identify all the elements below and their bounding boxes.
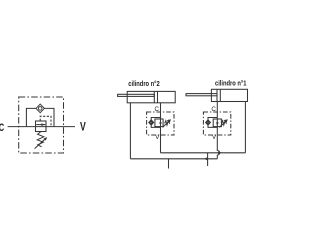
- wire V1 down with hop over series line: [217, 135, 219, 159]
- node V label: [80, 120, 86, 134]
- wire stub to control valve B: [207, 153, 209, 166]
- spring (valve 2): [165, 121, 170, 126]
- cylinder n°1 label: [215, 80, 247, 88]
- wire rod-side port of C2 down to rail: [129, 103, 131, 159]
- flow arrow (valve 1): [216, 122, 219, 125]
- wire bypass loop left: [26, 108, 36, 126]
- cylinder C1 piston: [216, 89, 218, 101]
- relief square (valve 2): [155, 119, 163, 127]
- wire through valve V2: [160, 119, 162, 153]
- cylinder n°2 label: [128, 80, 160, 88]
- spring (valve 1): [221, 121, 226, 126]
- flow arrow (valve 2): [159, 122, 162, 125]
- port C label (valve 1): [211, 106, 216, 113]
- node C label: [0, 122, 4, 134]
- check bypass loop (valve 2): [151, 118, 160, 128]
- relief valve body square: [36, 121, 47, 132]
- cylinder C1 rod: [186, 94, 217, 96]
- spring (zigzag): [37, 132, 44, 147]
- wire rod-side port of C1 to valve V1: [216, 102, 218, 120]
- check valve (diamond with ball): [36, 104, 44, 113]
- spring arrow (valve 2): [163, 119, 171, 127]
- wire cap-side port of C2 to valve V2: [160, 103, 162, 119]
- wire stub to control valve A: [168, 159, 170, 169]
- check valve (valve 2): [149, 120, 154, 125]
- valve V2 enclosure dash-dot box: [147, 112, 174, 135]
- flow arrow inside square: [36, 123, 45, 126]
- svg-text:V: V: [212, 134, 217, 141]
- pilot line (dashed): [40, 116, 51, 126]
- valve enclosure dash-dot box: [19, 97, 64, 153]
- svg-text:V: V: [155, 134, 160, 141]
- svg-text:C: C: [0, 122, 4, 134]
- wire V2 down and right to cylinder 1 cap: [161, 152, 246, 154]
- wire cylinder 1 cap port: [244, 102, 246, 153]
- wire bottom rail: [130, 158, 217, 160]
- cylinder C2 rod: [118, 94, 155, 96]
- spring arrow (valve 1): [219, 119, 227, 127]
- port C label (valve 2): [155, 106, 160, 113]
- check valve (valve 1): [206, 120, 211, 125]
- svg-text:V: V: [80, 120, 86, 134]
- wire C to V main line: [8, 126, 75, 128]
- svg-text:cilindro n°2: cilindro n°2: [128, 80, 160, 88]
- relief square (valve 1): [213, 119, 221, 127]
- cylinder C1 body: [211, 89, 247, 101]
- cylinder C2 body: [127, 91, 175, 102]
- check bypass loop (valve 1): [208, 118, 217, 128]
- valve V1 enclosure dash-dot box: [203, 112, 230, 135]
- spring adjust arrow: [35, 137, 48, 149]
- wire bypass loop right: [44, 108, 54, 126]
- flow arrowhead on series line at hop: [218, 151, 222, 154]
- port V label (valve 2): [155, 134, 160, 141]
- flow arrowhead on rail: [204, 157, 208, 160]
- port V label (valve 1): [212, 134, 217, 141]
- wire through valve V1: [216, 119, 218, 135]
- cylinder C2 piston: [153, 91, 155, 102]
- svg-text:cilindro n°1: cilindro n°1: [215, 80, 247, 88]
